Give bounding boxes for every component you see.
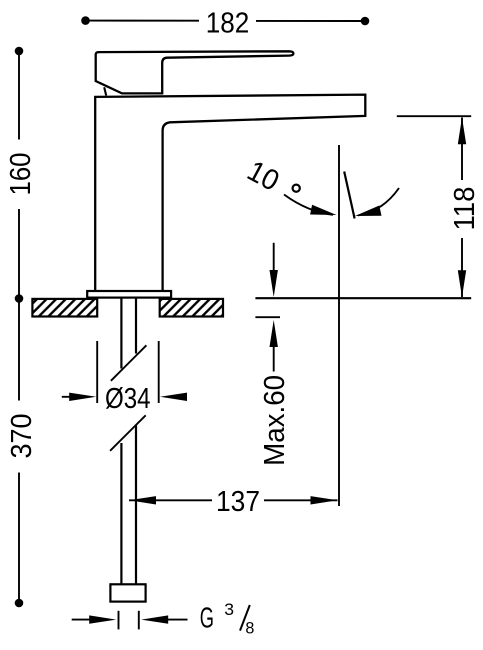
Max.60 up arrowhead [270,320,278,347]
dimension 118 down arrowhead [458,270,466,297]
Max.60 upper leader line [273,243,275,274]
G3/8 fraction slash [240,605,250,631]
supply pipe right line upper [135,298,137,354]
G3/8 tick 1 [118,611,120,630]
svg-text:3: 3 [224,600,234,619]
base flange [87,291,171,298]
G3/8 left leader [72,619,95,621]
dimension 182 line left segment [86,20,200,22]
dimension 137 left arrowhead [129,496,156,504]
supply pipe left line lower [120,443,122,584]
dimension D34 left leader [62,396,85,398]
dimension 118 up arrowhead [458,117,466,144]
G3/8 tick 2 [138,611,140,630]
dimension 137 line left segment [129,499,212,501]
dimension 118 line upper segment [461,118,463,181]
dimension 137 right arrowhead [311,496,338,504]
dimension 118 line lower segment [461,238,463,297]
angle arc left arrowhead [310,205,336,215]
svg-text:Ø34: Ø34 [105,383,151,415]
Max.60 down arrowhead [270,270,278,297]
angle arc right [358,188,399,216]
supply pipe right line lower [135,426,137,584]
G3/8 left arrowhead [89,615,116,623]
left dimension line segment 4 (370 lower) [18,473,20,604]
svg-text:G: G [200,602,214,634]
left dimension top dot [15,47,24,56]
dimension D34 right arrowhead [160,393,187,401]
dimension D34 right extension line [158,341,160,403]
countertop underside tick [255,316,280,318]
angle 10 degree label degree ring [293,185,300,192]
dimension 182 line right segment [256,20,365,22]
svg-text:370: 370 [6,414,38,459]
svg-text:Max.60: Max.60 [259,375,291,466]
dimension 182 right dot [361,17,370,26]
faucet lever handle [96,51,294,93]
svg-text:137: 137 [216,486,260,518]
Max.60 lower leader line [273,345,275,372]
pipe break mark 2 [110,415,146,451]
angle arc right arrowhead [355,206,382,217]
dimension 137 line right segment [264,499,338,501]
dimension 118 top extension line [397,115,471,117]
left dimension middle dot [15,294,24,303]
left dimension line segment 1 (160 upper) [18,51,20,140]
dimension 182 left dot [81,16,90,25]
spout axis extension line [338,145,340,506]
G3/8 right arrowhead [141,615,168,623]
left dimension bottom dot [15,599,24,608]
left dimension line segment 3 (370 upper) [18,299,20,401]
pipe break mark 1 [111,345,146,381]
G3/8 right leader [166,619,188,621]
dimension D34 left arrowhead [69,393,96,401]
countertop surface line [255,297,471,299]
svg-text:182: 182 [206,7,250,39]
left dimension line segment 2 (160 lower) [18,209,20,299]
countertop left hatched section [32,299,97,317]
supply pipe left line upper [120,298,122,369]
dimension D34 left extension line [96,341,98,403]
svg-text:160: 160 [5,153,37,196]
handle skirt sliver line [104,87,106,95]
faucet body and spout outline [95,95,365,292]
water stream 10 degree line [344,172,354,219]
angle arc left [284,195,333,215]
svg-text:8: 8 [245,618,254,637]
countertop right hatched section [160,299,223,317]
svg-text:118: 118 [449,187,481,231]
pipe end fitting [110,584,145,601]
